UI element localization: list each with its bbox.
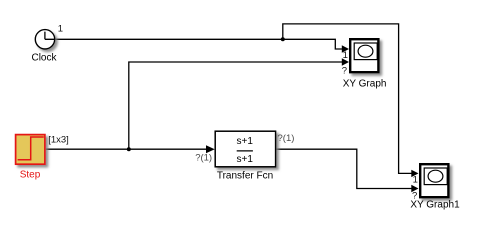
wire: Clock output horizontal to XY Graph in1 (55, 39, 343, 49)
svg-text:Transfer Fcn: Transfer Fcn (217, 170, 273, 181)
XY Graph1 screen ellipse (428, 170, 443, 182)
svg-text:Step: Step (20, 170, 41, 181)
XY Graph block body (350, 39, 378, 72)
transfer fcn block body (215, 131, 275, 167)
arrowhead: XY Graph input 1 (342, 45, 349, 52)
svg-text:?: ? (342, 65, 347, 76)
svg-text:s+1: s+1 (236, 154, 253, 165)
junction: step wire branch node (127, 147, 131, 151)
svg-text:?(1): ?(1) (278, 133, 295, 144)
step block body (16, 135, 45, 165)
svg-text:1: 1 (413, 174, 418, 185)
XY Graph inner screen rect (354, 43, 377, 60)
XY Graph1 block body (420, 164, 448, 197)
wire: Step output to Transfer Fcn input (46, 148, 206, 150)
clock block body (35, 30, 54, 49)
svg-text:s+1: s+1 (236, 136, 253, 147)
step block icon polyline (18, 137, 44, 160)
arrowhead: Transfer Fcn input (206, 145, 215, 153)
svg-text:[1x3]: [1x3] (48, 134, 69, 145)
wire: Transfer Fcn output to XY Graph1 in2 (276, 149, 412, 188)
svg-text:1: 1 (343, 50, 348, 61)
arrowhead: XY Graph input 2 (342, 58, 349, 65)
wire: branch from step node up and across to XY Graph in2 (129, 62, 343, 149)
wire: branch from clock node up and across to XY Graph1 in1 (283, 24, 412, 174)
clock hands (45, 32, 54, 40)
svg-text:?(1): ?(1) (195, 152, 212, 163)
svg-text:1: 1 (58, 24, 63, 35)
arrowhead: XY Graph1 input 2 (411, 185, 418, 192)
svg-text:Clock: Clock (31, 53, 57, 64)
junction: clock wire branch node (281, 37, 285, 41)
arrowhead: XY Graph1 input 1 (411, 170, 418, 177)
transfer fcn fraction bar (237, 150, 253, 152)
svg-text:XY Graph: XY Graph (343, 79, 387, 90)
XY Graph screen ellipse (358, 45, 373, 57)
XY Graph1 inner screen rect (424, 168, 447, 185)
svg-text:XY Graph1: XY Graph1 (410, 200, 460, 211)
